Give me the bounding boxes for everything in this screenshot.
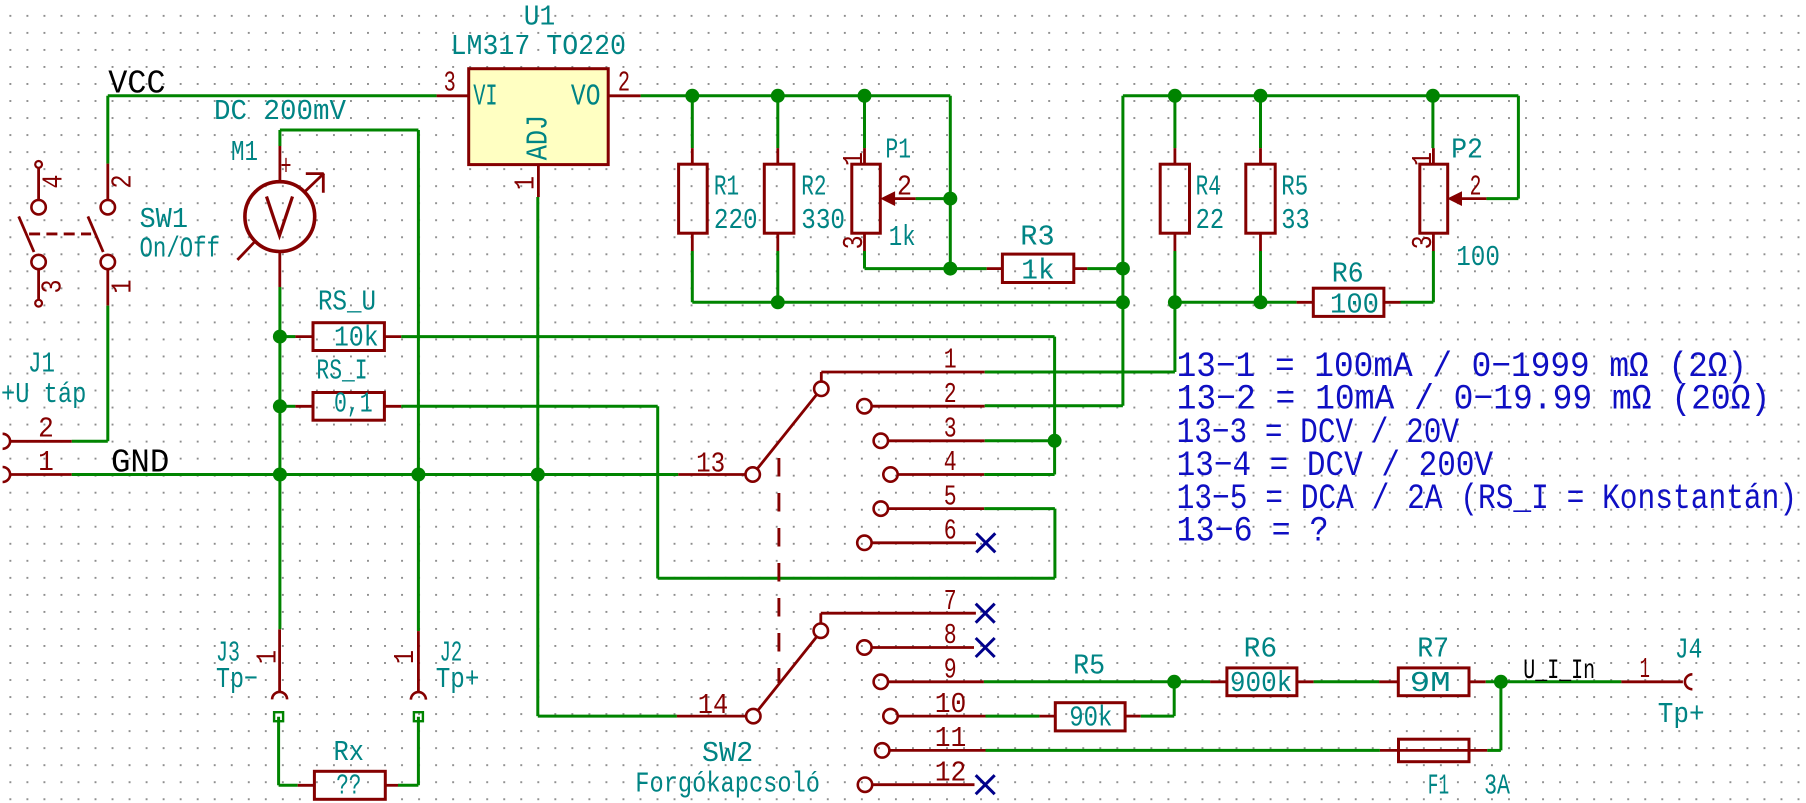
connector J1 pin 1 hook (3, 467, 11, 482)
resistor R4 top pin (1174, 148, 1177, 164)
wire R2 bottom (776, 251, 779, 302)
rotary switch SW2 contact 11 circle (875, 743, 889, 757)
wire row4 up to row3 node (984, 473, 1054, 476)
switch SW1 pole B pin 1 stub (106, 269, 109, 305)
no-connect X row 6 (976, 533, 995, 552)
rotary switch SW2 deck A pivot circle (746, 467, 760, 481)
svg-text:33: 33 (1281, 204, 1310, 237)
rotary switch SW2 pin 5 lead (888, 507, 984, 510)
junction VO rail / R2 (771, 89, 785, 103)
svg-text:P2: P2 (1451, 134, 1483, 167)
wire 900k to R7 (1314, 680, 1380, 683)
trimmer P1 pin 1 stub (863, 148, 866, 164)
resistor R2 top pin (776, 148, 779, 164)
wire RS_I rise to SW2 row5 (1053, 509, 1056, 579)
svg-text:R3: R3 (1020, 221, 1054, 254)
resistor RS_U body (313, 323, 384, 351)
svg-text:VCC: VCC (108, 66, 165, 104)
trimmer P2 pin 1 stub (1432, 148, 1435, 164)
regulator U1 pin 1 ADJ stub (537, 165, 540, 197)
svg-text:1: 1 (1640, 653, 1650, 686)
wire R5 top (1259, 96, 1262, 148)
no-connect X row 8 (976, 638, 995, 657)
wire row9 to R6 900k (984, 680, 1210, 683)
junction bottom rail left end (1116, 295, 1130, 309)
wire VCC horizontal to U1 VI (108, 94, 437, 97)
trimmer P2 wiper pin stub (1462, 197, 1487, 200)
resistor R7 left pin (1379, 680, 1398, 683)
rotary switch SW2 coupling dashed line (777, 458, 780, 683)
svg-text:M1: M1 (231, 136, 258, 169)
svg-text:GND: GND (111, 445, 169, 483)
junction row9 / 90k riser (1167, 675, 1181, 689)
wire 90k to row9 junction (1141, 715, 1175, 718)
rotary switch SW2 pin 14 stub (677, 715, 746, 718)
resistor RS_I left pin (295, 405, 313, 408)
svg-text:14: 14 (698, 689, 729, 722)
switch SW1 pole B bottom contact (101, 255, 115, 269)
resistor R2 bottom pin (776, 233, 779, 251)
svg-text:R6: R6 (1332, 258, 1364, 291)
rotary switch SW2 deck B blade (758, 637, 817, 710)
svg-text:11: 11 (935, 722, 967, 755)
resistor Rx right pin (385, 784, 398, 787)
trimmer P2 pin 3 stub (1432, 233, 1435, 251)
resistor Rx left pin (298, 784, 315, 787)
resistor RS_I right pin (384, 405, 401, 408)
trimmer P1 body (852, 164, 881, 233)
svg-text:1: 1 (251, 650, 284, 664)
svg-text:F1: F1 (1428, 770, 1449, 803)
switch SW1 pole A pin 3 end circle (35, 300, 42, 307)
junction R3 / mid vertical (1116, 262, 1130, 276)
rotary switch SW2 contact 2 circle (857, 399, 871, 413)
wire R4 top (1173, 96, 1176, 148)
svg-text:R7: R7 (1417, 633, 1449, 666)
junction bottom rail B / R4 (1168, 295, 1182, 309)
wire Tp+ vertical (DC rail) (417, 130, 420, 631)
rotary switch SW2 contact 5 circle (874, 501, 888, 515)
wire R1 top (691, 96, 694, 148)
rotary switch SW2 contact 8 circle (857, 640, 871, 654)
svg-text:LM317 TO220: LM317 TO220 (451, 30, 626, 63)
junction GND / M1 branch (273, 468, 287, 482)
wire GND branch down to pin 14 (536, 475, 539, 717)
svg-text:2: 2 (897, 171, 912, 204)
resistor R6(900k) body (1227, 668, 1297, 696)
resistor R6 right pin (1384, 301, 1401, 304)
switch SW1 coupling dashed line (29, 232, 91, 235)
svg-text:1: 1 (107, 280, 140, 294)
resistor R7 body (1398, 668, 1469, 696)
svg-text:Tp+: Tp+ (436, 663, 480, 696)
resistor R6 body (1313, 288, 1384, 316)
svg-text:R6: R6 (1244, 633, 1278, 666)
meter M1 minus pin stub (278, 251, 281, 287)
fuse F1 body (1399, 739, 1470, 762)
rotary switch SW2 pin 1 lead (821, 371, 984, 374)
connector J1 pin 2 stub (10, 440, 72, 443)
resistor R3 left pin (987, 267, 1003, 270)
wire GND rail (72, 473, 679, 476)
wire R4 bottom (1173, 251, 1176, 302)
junction rail B / R4 (1168, 89, 1182, 103)
svg-text:SW2: SW2 (702, 737, 753, 770)
svg-text:4: 4 (38, 175, 71, 189)
switch SW1 pole A blade (19, 216, 34, 252)
wire U1 ADJ down to GND rail (536, 197, 539, 475)
rotary switch SW2 pin 11 lead (889, 749, 985, 752)
rotary switch SW2 contact 1 circle (814, 382, 828, 396)
fuse F1 element line (1399, 749, 1470, 752)
trimmer P1 wiper arrow (881, 192, 894, 205)
svg-text:1: 1 (944, 344, 957, 377)
wire mid vertical x=1123 (1121, 96, 1124, 406)
svg-text:9: 9 (944, 654, 957, 687)
wire RS_I right (401, 405, 657, 408)
rotary switch SW2 pin 9 lead (888, 680, 984, 683)
svg-text:VI: VI (473, 80, 497, 115)
wire bottom rail right segment (1175, 301, 1297, 304)
junction J4 node / fuse branch (1494, 675, 1508, 689)
svg-text:R2: R2 (801, 171, 826, 204)
junction rail B / P2 (1426, 89, 1440, 103)
svg-text:6: 6 (944, 515, 957, 548)
svg-text:5: 5 (944, 480, 957, 513)
svg-text:+: + (281, 150, 292, 183)
svg-text:3: 3 (944, 413, 957, 446)
wire VO rail (641, 94, 951, 97)
resistor R5(90k) right pin (1125, 715, 1141, 718)
svg-text:On/Off: On/Off (140, 233, 221, 266)
wire Rx left branch (277, 717, 280, 786)
svg-text:J4: J4 (1675, 634, 1702, 667)
rotary switch SW2 contact 7 circle (814, 624, 828, 638)
rotary switch SW2 contact 12 circle (858, 778, 872, 792)
junction GND / ADJ branch (531, 468, 545, 482)
resistor RS_I body (313, 393, 384, 421)
connector J1 pin 2 hook (3, 434, 11, 449)
svg-text:10k: 10k (334, 321, 379, 354)
rotary switch SW2 pin 3 lead (888, 439, 985, 442)
regulator U1 pin 2 VO stub (608, 94, 640, 97)
svg-text:1k: 1k (1021, 254, 1054, 287)
dangling wire end square (below J3) (274, 712, 283, 721)
resistor R5 body (1246, 164, 1275, 233)
svg-text:J1: J1 (28, 347, 55, 380)
resistor R6 left pin (1297, 301, 1314, 304)
rotary switch SW2 pin 10 lead (898, 715, 986, 718)
svg-text:2: 2 (944, 378, 957, 411)
svg-text:U1: U1 (524, 0, 555, 33)
junction P1 wiper node (943, 192, 957, 206)
svg-text:4: 4 (944, 446, 957, 479)
svg-text:R5: R5 (1281, 171, 1308, 204)
svg-text:RS_I: RS_I (316, 355, 367, 388)
resistor R1 top pin (691, 148, 694, 164)
wire R5 bottom (1259, 251, 1262, 302)
rotary switch SW2 contact 1 elbow (820, 372, 823, 382)
switch SW1 pole A pin 4 stub (37, 168, 40, 200)
switch SW1 pole A pin 4 end circle (35, 161, 42, 168)
svg-text:2: 2 (38, 412, 54, 445)
junction bottom rail B / R5 (1254, 295, 1268, 309)
svg-text:10: 10 (935, 688, 967, 721)
svg-text:1: 1 (389, 650, 422, 664)
rotary switch SW2 pin 7 lead (821, 612, 976, 615)
rotary switch SW2 pin 13 stub (678, 473, 745, 476)
dangling wire end square (below J2) (414, 712, 423, 721)
wire bottom rail left segment (692, 301, 1123, 304)
svg-text:1: 1 (38, 446, 54, 479)
trimmer P1 pin 3 stub (863, 233, 866, 251)
svg-text:Tp−: Tp− (216, 663, 258, 696)
wire R1 bottom (691, 251, 694, 302)
svg-text:0,1: 0,1 (334, 388, 373, 421)
wire top rail B (1123, 94, 1519, 97)
wire R3 right to vertical (1087, 267, 1123, 270)
fuse F1 right pin (1469, 749, 1487, 752)
svg-text:Tp+: Tp+ (1658, 698, 1705, 731)
junction rail B / R5 (1254, 89, 1268, 103)
svg-text:R1: R1 (714, 171, 739, 204)
wire R6 to P2 pin3 (1401, 301, 1434, 304)
meter M1 body circle (245, 182, 315, 252)
wire row2 to mid vertical (985, 404, 1123, 407)
svg-text:13−6 = ?: 13−6 = ? (1177, 511, 1329, 551)
rotary switch SW2 pin 2 lead (872, 405, 985, 408)
svg-text:3: 3 (444, 67, 456, 100)
rotary switch SW2 pin 4 lead (898, 473, 985, 476)
resistor R5(90k) left pin (1039, 715, 1055, 718)
svg-text:RS_U: RS_U (318, 286, 376, 319)
wire node to R3 left pin (950, 267, 986, 270)
rotary switch SW2 deck B pivot circle (746, 709, 760, 723)
wire M1 minus down to GND (278, 287, 281, 629)
svg-text:8: 8 (944, 619, 957, 652)
svg-text:1: 1 (510, 176, 543, 190)
wire row11 to fuse F1 (986, 749, 1380, 752)
meter M1 V glyph (267, 197, 293, 236)
svg-text:90k: 90k (1069, 702, 1112, 735)
wire RS_I bottom run (658, 577, 1055, 580)
junction bottom rail / R2 (771, 295, 785, 309)
resistor R4 bottom pin (1174, 233, 1177, 251)
svg-text:3: 3 (1407, 235, 1440, 249)
svg-text:??: ?? (336, 770, 361, 803)
wire R2 top (776, 96, 779, 148)
rotary switch SW2 contact 4 circle (883, 467, 897, 481)
meter M1 plus pin stub (278, 146, 281, 182)
svg-text:VO: VO (571, 80, 601, 115)
svg-text:9M: 9M (1410, 667, 1451, 700)
resistor RS_U right pin (384, 335, 401, 338)
junction VO rail / P1 (858, 89, 872, 103)
junction GND / Tp+ branch (411, 468, 425, 482)
rotary switch SW2 pin 8 lead (872, 646, 974, 649)
svg-text:1k: 1k (889, 221, 916, 254)
resistor R3 right pin (1074, 267, 1088, 270)
no-connect X row 7 (976, 604, 995, 623)
svg-text:900k: 900k (1230, 667, 1292, 700)
svg-text:P1: P1 (885, 134, 911, 167)
resistor R7 right pin (1469, 680, 1486, 683)
svg-text:2: 2 (107, 175, 140, 189)
svg-text:SW1: SW1 (140, 203, 189, 236)
fuse F1 left pin (1380, 749, 1399, 752)
svg-text:R5: R5 (1073, 649, 1105, 682)
wire row1 to R4 rail (985, 371, 1175, 374)
wire R7 to J4 node (1486, 680, 1622, 683)
svg-text:Forgókapcsoló: Forgókapcsoló (635, 768, 820, 801)
resistor RS_U left pin (295, 335, 313, 338)
resistor R5 bottom pin (1259, 233, 1262, 251)
svg-text:R4: R4 (1196, 171, 1221, 204)
svg-text:330: 330 (801, 204, 845, 237)
wire SW1 pin 1 to J1 pin 2 (106, 306, 109, 442)
resistor R1 body (679, 164, 708, 233)
rotary switch SW2 contact 10 circle (883, 709, 897, 723)
svg-text:+U táp: +U táp (1, 378, 86, 411)
wire M1 plus to DC rail corner (280, 129, 419, 132)
wire J4 node down to fuse (1499, 682, 1502, 751)
rotary switch SW2 pin 12 lead (872, 783, 974, 786)
trimmer P2 wiper arrow (1448, 192, 1461, 205)
connector J3 pin 1 stub (278, 629, 281, 692)
resistor R5 top pin (1259, 148, 1262, 164)
rotary switch SW2 contact 6 circle (857, 536, 871, 550)
connector J2 hook (411, 692, 426, 700)
svg-text:U_I_In: U_I_In (1523, 656, 1595, 687)
wire VCC vertical to SW1 pin 2 (106, 96, 109, 164)
wire P1 pin3 to R3 node (865, 267, 951, 270)
wire P1 pin3 down (863, 251, 866, 269)
svg-text:7: 7 (944, 585, 957, 618)
meter M1 arrow (237, 241, 255, 260)
regulator U1 pin 3 VI stub (437, 94, 469, 97)
resistor R6(900k) right pin (1297, 680, 1314, 683)
connector J3 hook (272, 692, 287, 699)
wire RS_U left (280, 335, 296, 338)
junction M1 / RS_U (273, 330, 287, 344)
wire VO rail drop to P1 wiper (949, 96, 952, 199)
rotary switch SW2 contact 7 elbow (819, 613, 822, 623)
switch SW1 pole A top contact (31, 200, 45, 214)
resistor R1 bottom pin (691, 233, 694, 251)
wire RS_I left (280, 405, 296, 408)
junction VO rail / R1 (685, 89, 699, 103)
svg-text:2: 2 (618, 67, 630, 100)
rotary switch SW2 deck A blade (757, 394, 817, 469)
switch SW1 pole B pin 2 stub (106, 164, 109, 200)
wire rail B drop to P2 wiper (1517, 96, 1520, 199)
svg-text:ADJ: ADJ (522, 115, 557, 160)
connector J1 pin 1 stub (10, 473, 72, 476)
svg-text:DC 200mV: DC 200mV (214, 95, 347, 128)
connector J4 pin 1 stub (1621, 680, 1683, 683)
wire RS_I drop (656, 406, 659, 578)
no-connect X row 12 (976, 775, 995, 794)
junction P1 pin3 node (943, 262, 957, 276)
wire Rx right branch (398, 784, 418, 787)
wire row3 to RS_U node (985, 439, 1055, 442)
switch SW1 pole A bottom contact (31, 255, 45, 269)
junction M1 / RS_I (273, 399, 287, 413)
rotary switch SW2 contact 3 circle (874, 434, 888, 448)
resistor R6(900k) left pin (1210, 680, 1227, 683)
trimmer P2 body (1420, 164, 1448, 233)
resistor Rx body (314, 771, 385, 799)
rotary switch SW2 contact 9 circle (874, 675, 888, 689)
wire row5 to RS_I riser (984, 507, 1055, 510)
svg-text:12: 12 (935, 756, 967, 789)
junction row3 / RS_U (1048, 434, 1062, 448)
wire row10 to 90k (986, 715, 1040, 718)
svg-text:100: 100 (1330, 288, 1379, 321)
svg-text:22: 22 (1196, 204, 1225, 237)
switch SW1 pole A pin 3 stub (37, 269, 40, 300)
rotary switch SW2 pin 6 lead (872, 541, 976, 544)
wire P1 pin1 top (863, 96, 866, 148)
svg-text:3: 3 (37, 280, 70, 294)
wire RS_U drop to SW2 row3 (1053, 337, 1056, 441)
resistor R4 body (1160, 164, 1189, 233)
regulator U1 body (469, 69, 609, 165)
wire P2 pin1 top (1431, 96, 1434, 148)
svg-text:3A: 3A (1484, 770, 1510, 803)
resistor R2 body (764, 164, 794, 233)
wire P1 wiper to pin3 vertical (949, 199, 952, 269)
switch SW1 pole B blade (88, 216, 103, 252)
connector J2 pin 1 stub (417, 631, 420, 692)
trimmer P1 wiper pin stub (895, 197, 916, 200)
svg-text:2: 2 (1470, 171, 1482, 204)
svg-text:13: 13 (696, 448, 725, 481)
svg-text:Rx: Rx (334, 736, 365, 769)
wire RS_U right (401, 335, 1054, 338)
resistor R3 body (1002, 254, 1073, 282)
switch SW1 pole B top contact (101, 200, 115, 214)
connector J4 hook (1685, 674, 1692, 689)
svg-text:220: 220 (714, 204, 758, 237)
svg-text:3: 3 (838, 235, 871, 249)
svg-text:100: 100 (1456, 241, 1500, 274)
resistor R5(90k) body (1055, 703, 1125, 731)
